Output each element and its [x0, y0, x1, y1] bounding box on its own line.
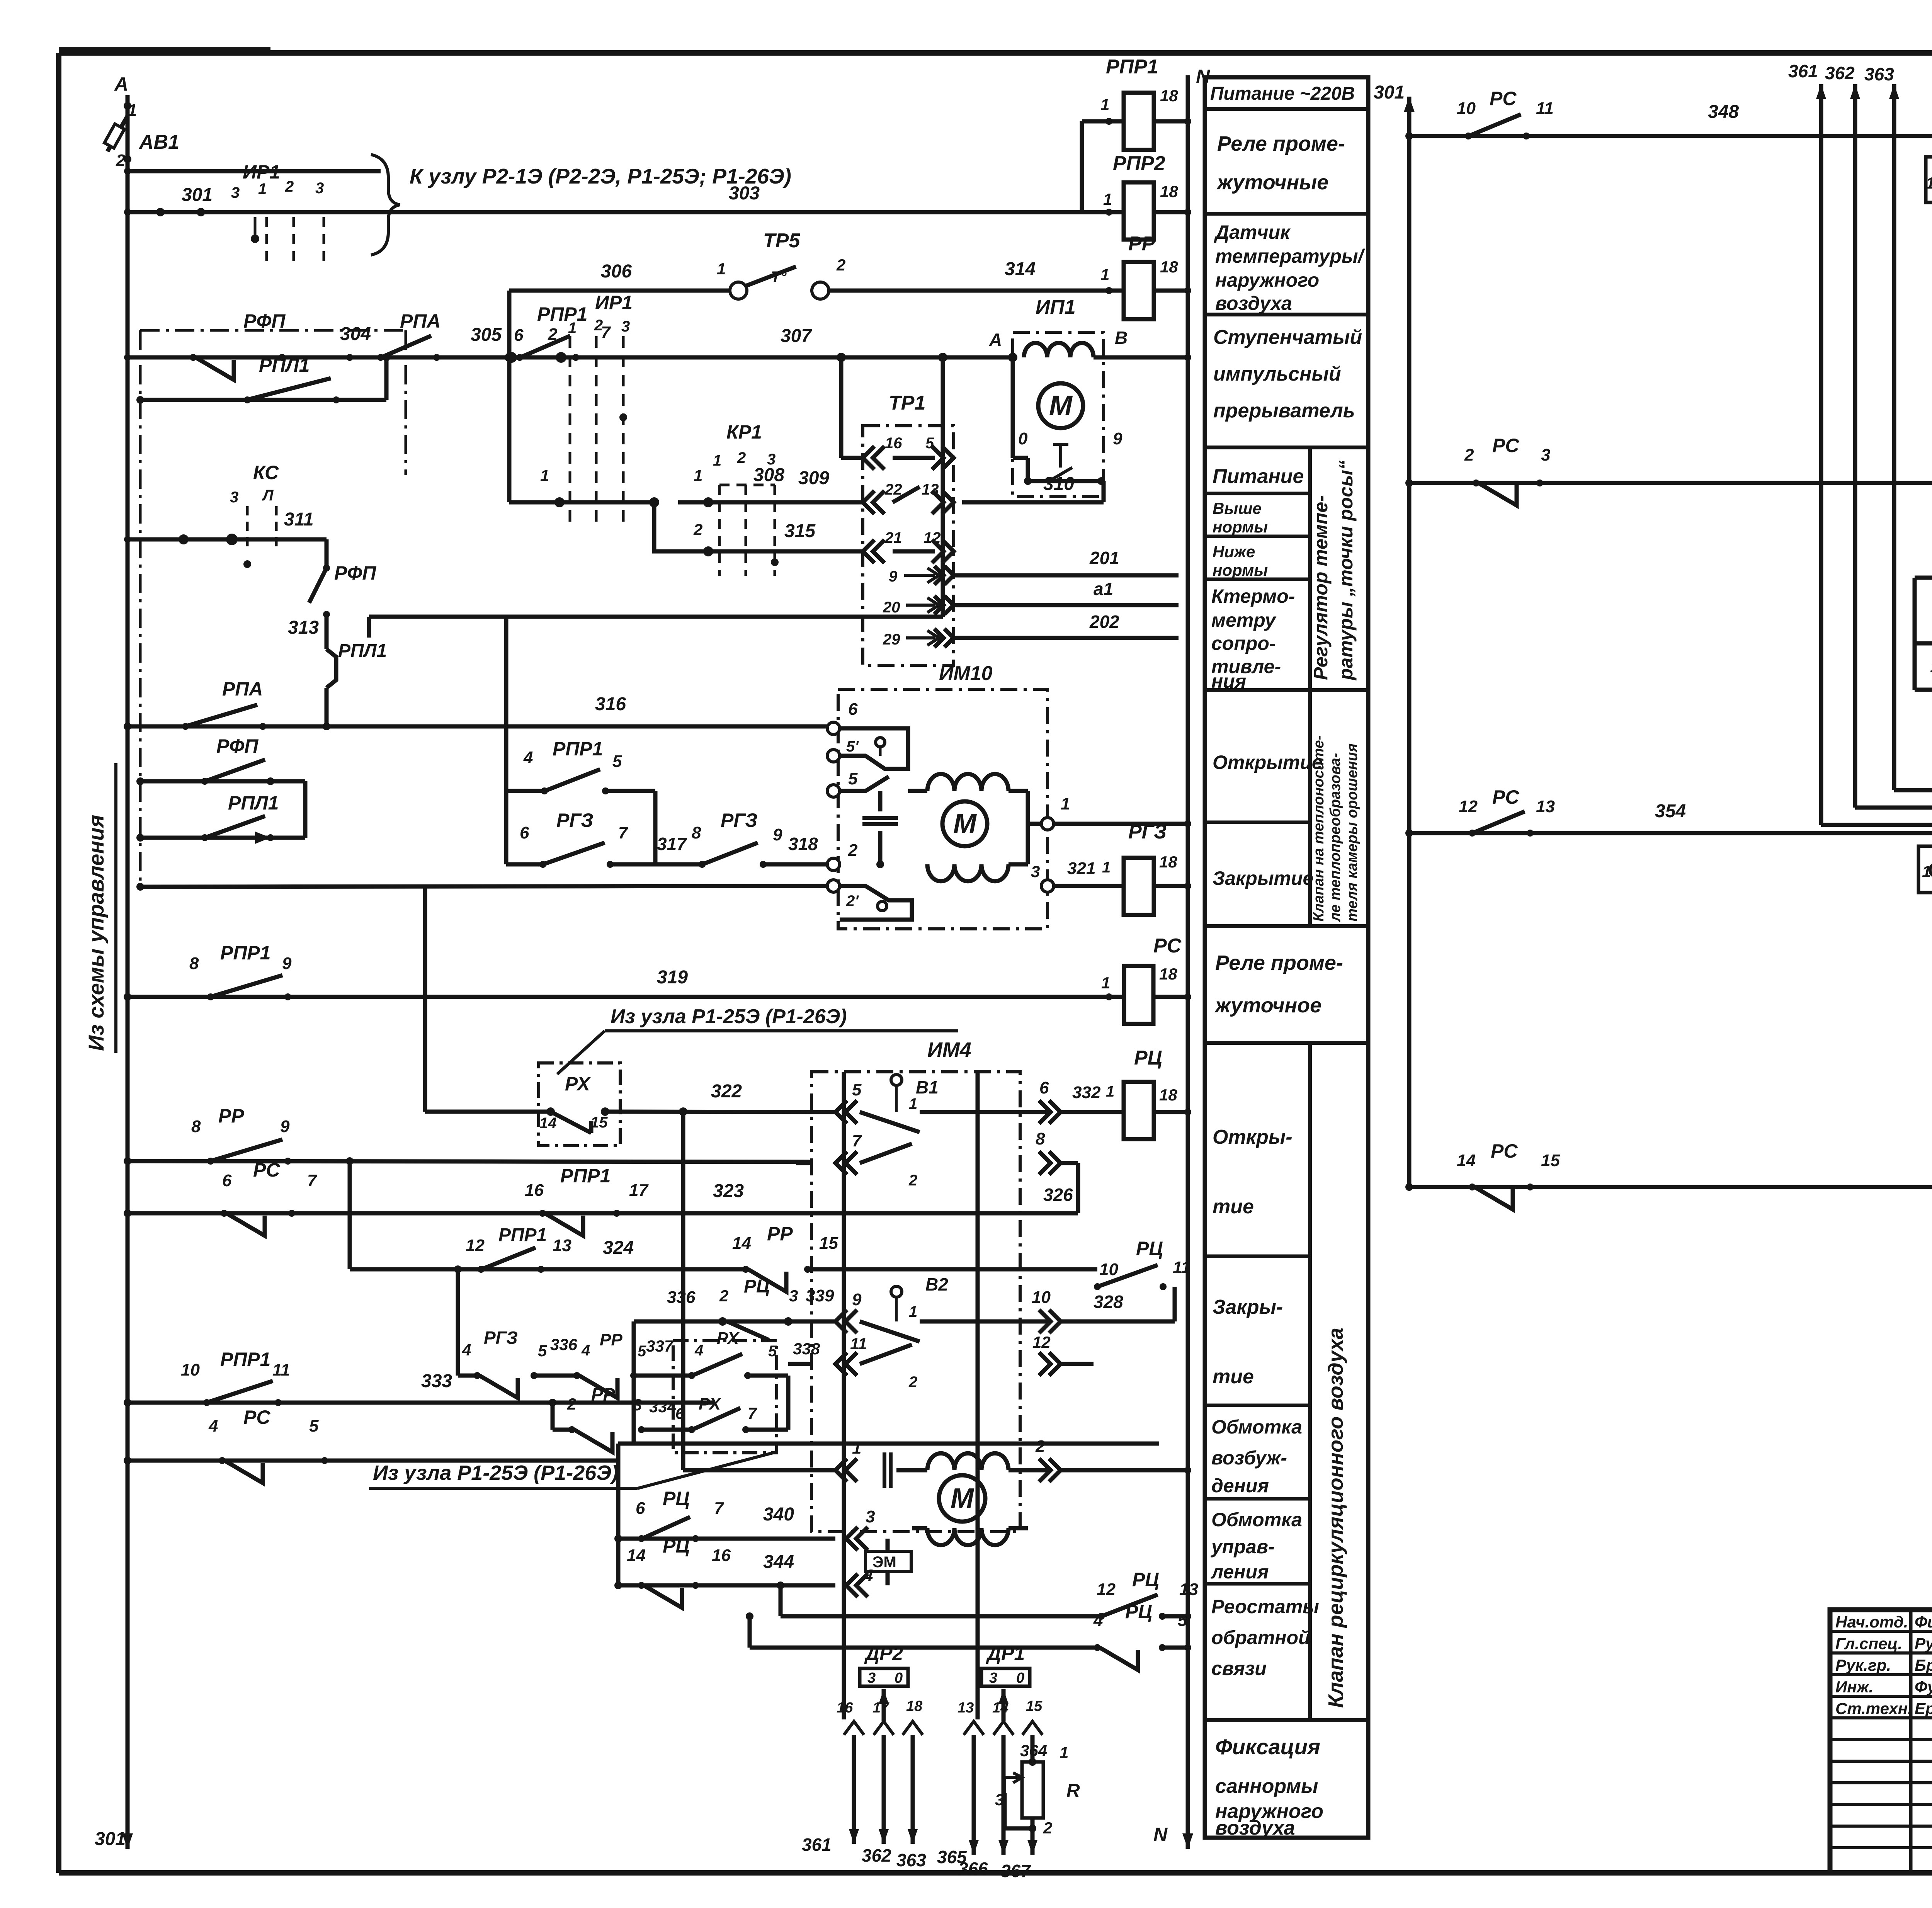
ДР2 terminal arrow 3 — [903, 1721, 923, 1735]
regulator cell divider y=1388 — [1205, 535, 1310, 538]
vertical 306-feed — [507, 291, 512, 357]
svg-text:5: 5 — [309, 1417, 319, 1435]
ИМ4 contact 11/12 row — [835, 1352, 857, 1376]
svg-text:2': 2' — [846, 893, 859, 910]
svg-text:7: 7 — [618, 823, 629, 842]
svg-text:14: 14 — [1930, 657, 1932, 676]
svg-text:362: 362 — [1825, 63, 1855, 83]
svg-text:3: 3 — [866, 1507, 875, 1526]
svg-text:3: 3 — [1541, 446, 1550, 464]
svg-text:4: 4 — [462, 1341, 471, 1359]
svg-text:202: 202 — [1089, 612, 1119, 632]
svg-text:303: 303 — [729, 183, 760, 204]
svg-text:РР: РР — [767, 1223, 793, 1245]
regulator cell divider y=1499 — [1205, 578, 1310, 581]
row 4 РС 5 (3780) — [128, 1459, 618, 1463]
svg-text:7: 7 — [852, 1131, 862, 1150]
svg-text:323: 323 — [713, 1181, 744, 1201]
svg-text:ДР1: ДР1 — [986, 1643, 1025, 1664]
svg-text:Фингер: Фингер — [1915, 1613, 1932, 1631]
contact РФП vertical chain — [325, 539, 329, 568]
svg-text:РГЗ: РГЗ — [721, 809, 758, 831]
svg-text:8: 8 — [189, 954, 199, 973]
svg-text:РПР1: РПР1 — [498, 1225, 547, 1245]
wire 311 row — [128, 537, 327, 542]
svg-text:обратной: обратной — [1211, 1627, 1310, 1648]
svg-text:337: 337 — [646, 1337, 674, 1355]
svg-text:РПЛ1: РПЛ1 — [338, 641, 387, 661]
svg-text:10: 10 — [181, 1360, 200, 1379]
svg-text:8: 8 — [191, 1117, 201, 1136]
svg-text:РПЛ1: РПЛ1 — [259, 354, 310, 376]
svg-text:РГЗ: РГЗ — [556, 809, 594, 831]
svg-text:6: 6 — [848, 700, 858, 719]
svg-text:Открытие: Открытие — [1213, 752, 1323, 773]
svg-text:Регулятор темпе-: Регулятор темпе- — [1310, 495, 1332, 680]
svg-text:Обмотка: Обмотка — [1211, 1509, 1302, 1530]
svg-text:16: 16 — [885, 435, 902, 452]
svg-text:а1: а1 — [1094, 579, 1113, 599]
svg-text:301: 301 — [95, 1829, 126, 1849]
ТР1 contact 22/13 — [863, 491, 884, 514]
svg-text:Л: Л — [262, 487, 274, 504]
svg-text:7: 7 — [307, 1171, 318, 1190]
svg-text:18: 18 — [1159, 853, 1177, 871]
svg-text:9: 9 — [889, 568, 898, 585]
signature table row line y=4390 — [1830, 1695, 1932, 1698]
row 315 — [678, 549, 863, 554]
svg-text:нормы: нормы — [1213, 561, 1268, 579]
vertical 1696 down — [653, 791, 658, 864]
svg-text:354: 354 — [1655, 801, 1686, 821]
ИМ6 motor row 1/2 — [1915, 576, 1932, 580]
ИМ4 contact 7/8 row — [835, 1151, 857, 1175]
svg-text:1: 1 — [1103, 190, 1112, 208]
svg-text:1: 1 — [909, 1095, 917, 1112]
РЦ 10-11 wire — [1097, 1269, 1098, 1287]
svg-text:ле теплопреобразова-: ле теплопреобразова- — [1327, 753, 1344, 922]
svg-text:12: 12 — [466, 1236, 485, 1255]
svg-text:21: 21 — [884, 529, 902, 546]
svg-text:РХ: РХ — [699, 1394, 722, 1413]
svg-text:ИП1: ИП1 — [1036, 296, 1076, 318]
signature table row line y=4614 — [1830, 1781, 1932, 1784]
svg-text:10: 10 — [1099, 1260, 1118, 1279]
svg-text:М: М — [951, 1483, 975, 1514]
svg-text:РЦ: РЦ — [1125, 1601, 1152, 1622]
svg-text:тие: тие — [1213, 1366, 1254, 1388]
middle column divider y=553 — [1205, 212, 1368, 216]
svg-text:6: 6 — [222, 1171, 232, 1190]
sheet frame top border — [59, 50, 1932, 56]
svg-text:1: 1 — [1106, 1083, 1114, 1100]
svg-text:РФП: РФП — [243, 310, 286, 332]
svg-text:РГЗ: РГЗ — [1128, 821, 1167, 843]
svg-text:РПР1: РПР1 — [1106, 56, 1158, 78]
svg-text:18: 18 — [1159, 1086, 1177, 1104]
svg-text:313: 313 — [288, 617, 319, 638]
svg-text:5: 5 — [538, 1342, 547, 1360]
ИМ10 switch blade 2прим — [878, 901, 887, 911]
svg-text:3: 3 — [231, 184, 240, 201]
svg-text:0: 0 — [1016, 1670, 1024, 1686]
svg-text:АВ1: АВ1 — [138, 131, 179, 153]
ИП1 motor — [1038, 383, 1083, 428]
ИП1 left drop to row 307 — [1011, 357, 1015, 458]
ИМ10 capacitor — [878, 791, 883, 811]
ИМ10 terminal 6 — [827, 722, 840, 735]
svg-text:14: 14 — [1457, 1151, 1476, 1170]
svg-text:2: 2 — [548, 325, 558, 344]
row 305/307 main — [128, 355, 1013, 360]
row РС 2-3 / РН 16-17 / 350 — [1409, 481, 1932, 485]
svg-text:4: 4 — [1093, 1611, 1103, 1630]
svg-text:304: 304 — [340, 324, 371, 344]
svg-text:Реле проме-: Реле проме- — [1215, 951, 1343, 974]
svg-text:ратуры „точки росы“: ратуры „точки росы“ — [1335, 460, 1357, 681]
svg-text:жуточные: жуточные — [1216, 171, 1328, 194]
svg-text:305: 305 — [471, 325, 502, 345]
svg-text:339: 339 — [806, 1286, 834, 1305]
svg-text:367: 367 — [1001, 1861, 1031, 1881]
svg-text:Датчик: Датчик — [1214, 221, 1291, 243]
svg-text:Из узла Р1-25Э (Р1-26Э): Из узла Р1-25Э (Р1-26Э) — [373, 1461, 618, 1485]
row 309 — [678, 500, 863, 505]
nested wires from 361/362/363 to БР2 — [1821, 823, 1932, 827]
row РПР1 8-9 / wire 319 — [128, 995, 1124, 999]
signature table row line y=4558 — [1830, 1760, 1932, 1763]
svg-text:РХ: РХ — [565, 1073, 591, 1095]
svg-text:Закры-: Закры- — [1213, 1296, 1283, 1318]
svg-text:1: 1 — [1102, 859, 1111, 876]
svg-text:201: 201 — [1089, 548, 1119, 568]
svg-text:связи: связи — [1211, 1658, 1267, 1679]
svg-text:Обмотка: Обмотка — [1211, 1416, 1302, 1438]
svg-text:РПР1: РПР1 — [537, 303, 587, 325]
svg-text:ДР2: ДР2 — [864, 1643, 903, 1664]
svg-text:364: 364 — [1020, 1741, 1047, 1760]
svg-text:ТР5: ТР5 — [763, 230, 800, 252]
svg-text:2: 2 — [719, 1287, 728, 1305]
svg-text:Рубчински: Рубчински — [1915, 1634, 1932, 1653]
svg-text:338: 338 — [793, 1340, 820, 1358]
svg-text:А: А — [989, 330, 1002, 350]
wire 326 drop — [1061, 1161, 1078, 1165]
contact РПЛ1 vertical chain — [325, 614, 329, 649]
svg-text:12: 12 — [1032, 1333, 1051, 1351]
ИМ10 terminal 5 — [827, 785, 840, 797]
vertical wires 361 362 363 with up arrows — [1819, 84, 1823, 825]
svg-text:Гл.спец.: Гл.спец. — [1835, 1634, 1902, 1653]
svg-text:311: 311 — [284, 509, 314, 530]
svg-text:РЦ: РЦ — [663, 1488, 690, 1509]
row 333 РПР1 10-11 — [128, 1401, 715, 1405]
dash-dot selector frame (left) — [139, 330, 142, 889]
svg-text:344: 344 — [763, 1552, 794, 1572]
svg-text:6: 6 — [520, 823, 529, 842]
svg-text:321: 321 — [1067, 859, 1095, 878]
svg-text:теля камеры орошения: теля камеры орошения — [1344, 743, 1361, 922]
signature table column dividers — [1909, 1610, 1913, 1873]
svg-text:14: 14 — [627, 1546, 646, 1565]
valve sub-block divider — [1308, 690, 1312, 926]
ИМ10 terminal 5прим — [827, 750, 840, 762]
svg-text:РХ: РХ — [717, 1329, 740, 1348]
ЭМ electromagnet box — [886, 1539, 890, 1551]
svg-text:14: 14 — [732, 1234, 751, 1253]
recirculation sub-block divider — [1308, 1043, 1312, 1720]
svg-text:15: 15 — [1541, 1151, 1560, 1170]
wire 303 — [128, 210, 1082, 214]
svg-text:Инж.: Инж. — [1835, 1678, 1873, 1696]
svg-text:309: 309 — [798, 468, 829, 488]
ИМ4 contact 5/6 row — [835, 1100, 857, 1124]
svg-text:Выше: Выше — [1213, 499, 1262, 517]
wire above motor (3736) — [618, 1442, 1159, 1446]
row РС 6-7 / 323 — [128, 1211, 1078, 1216]
regulator sub-block divider — [1308, 447, 1312, 690]
svg-text:R: R — [1066, 1780, 1080, 1801]
svg-text:РПР1: РПР1 — [553, 738, 603, 760]
svg-text:15: 15 — [1026, 1698, 1043, 1714]
svg-text:1: 1 — [568, 320, 577, 337]
svg-text:1: 1 — [713, 452, 721, 469]
switch В1 (ИМ4) — [891, 1075, 902, 1085]
contact box РХ (14-15) — [539, 1063, 620, 1146]
svg-text:301: 301 — [182, 185, 213, 205]
svg-text:362: 362 — [862, 1845, 891, 1865]
svg-text:РС: РС — [1490, 88, 1517, 109]
svg-text:тие: тие — [1213, 1195, 1254, 1218]
svg-text:В1: В1 — [916, 1077, 939, 1097]
terminal strip БР2 — [1918, 846, 1932, 893]
svg-text:18: 18 — [1160, 182, 1178, 201]
svg-text:РС: РС — [1153, 935, 1182, 957]
middle column divider y=814 — [1205, 313, 1368, 316]
signature table row line y=4670 — [1830, 1803, 1932, 1806]
svg-text:Питание ~220В: Питание ~220В — [1210, 83, 1355, 104]
svg-text:3: 3 — [789, 1287, 798, 1305]
middle column divider y=1158 — [1205, 446, 1368, 449]
row РГЗ 317 РГЗ 318 — [506, 862, 543, 867]
svg-text:361: 361 — [802, 1835, 832, 1855]
svg-text:РР: РР — [600, 1330, 622, 1349]
svg-text:РР: РР — [1128, 233, 1155, 255]
svg-text:0: 0 — [895, 1670, 903, 1686]
svg-text:363: 363 — [1864, 64, 1894, 84]
svg-text:6: 6 — [514, 326, 524, 345]
svg-text:29: 29 — [883, 631, 900, 648]
svg-text:10: 10 — [1032, 1288, 1051, 1307]
switch АВ1 — [124, 102, 131, 110]
svg-text:температуры/: температуры/ — [1215, 245, 1366, 267]
signature table row line y=4278 — [1830, 1651, 1932, 1655]
svg-text:16: 16 — [837, 1700, 853, 1716]
ИМ10 motor — [927, 774, 1009, 791]
svg-text:319: 319 — [657, 967, 688, 988]
svg-text:340: 340 — [763, 1504, 794, 1525]
row 308 — [507, 357, 512, 502]
ДР2 terminal arrow 2 — [874, 1721, 894, 1735]
row РЦ 12-13 (4183) — [781, 1614, 1101, 1619]
svg-text:3: 3 — [1031, 862, 1040, 881]
svg-text:363: 363 — [896, 1850, 926, 1870]
svg-text:5': 5' — [846, 738, 859, 755]
svg-text:3: 3 — [621, 318, 630, 335]
svg-text:20: 20 — [883, 599, 900, 616]
left feeder vertical 1600 — [616, 1444, 621, 1585]
svg-text:22: 22 — [884, 481, 902, 498]
svg-text:2: 2 — [908, 1374, 917, 1391]
svg-text:15: 15 — [819, 1234, 838, 1253]
svg-text:1: 1 — [1100, 95, 1109, 114]
ИМ4 contact 9/10 row — [835, 1310, 857, 1333]
svg-text:ТР1: ТР1 — [889, 392, 925, 414]
svg-text:361: 361 — [1788, 61, 1818, 81]
svg-text:2: 2 — [567, 1395, 576, 1413]
row РПА / wire 316 — [128, 724, 833, 729]
bus A (phase) vertical left — [126, 95, 130, 1849]
svg-text:1: 1 — [1101, 974, 1110, 992]
ДР1 terminal arrow 1 — [964, 1721, 984, 1735]
wire 314 — [829, 289, 1124, 293]
svg-text:4: 4 — [863, 1566, 873, 1585]
svg-text:РС: РС — [1492, 435, 1519, 456]
svg-text:Из узла Р1-25Э (Р1-26Э): Из узла Р1-25Э (Р1-26Э) — [611, 1005, 847, 1028]
svg-text:РС: РС — [1491, 1140, 1518, 1162]
svg-text:нормы: нормы — [1213, 518, 1268, 536]
wire 321 left part — [140, 886, 827, 887]
svg-text:18: 18 — [1160, 87, 1178, 105]
svg-text:ИМ4: ИМ4 — [927, 1038, 971, 1061]
svg-text:Клапан рециркуляционного возд: Клапан рециркуляционного воздуха — [1324, 1328, 1347, 1708]
recirculation cell divider y=4099 — [1205, 1582, 1310, 1586]
svg-text:2: 2 — [1043, 1819, 1052, 1837]
ИМ10 terminal 2 — [827, 858, 840, 871]
regulator cell divider y=1277 — [1205, 492, 1310, 495]
signature table row line y=4782 — [1830, 1846, 1932, 1849]
recirculation cell divider y=3637 — [1205, 1404, 1310, 1407]
svg-text:13: 13 — [553, 1236, 571, 1255]
svg-text:2: 2 — [737, 449, 746, 466]
svg-text:12: 12 — [1097, 1580, 1116, 1599]
wire arrows down 361 362 363 — [852, 1735, 856, 1844]
svg-text:326: 326 — [1043, 1185, 1073, 1205]
svg-text:РПА: РПА — [222, 678, 263, 700]
ДР2 terminal arrow 1 — [844, 1721, 864, 1735]
svg-text:7: 7 — [748, 1404, 757, 1422]
svg-text:5: 5 — [638, 1343, 646, 1360]
recirculation cell divider y=3879 — [1205, 1497, 1310, 1501]
ИМ4 rail left — [842, 1072, 846, 1719]
svg-text:1: 1 — [909, 1303, 917, 1320]
wire 308 — [506, 0, 507, 357]
svg-text:16: 16 — [712, 1546, 731, 1565]
signature table row line y=4446 — [1830, 1716, 1932, 1719]
wire arrows down 366 367 — [972, 1735, 976, 1855]
svg-text:РФП: РФП — [334, 562, 376, 584]
svg-text:10: 10 — [1457, 99, 1476, 118]
svg-text:ИМ10: ИМ10 — [939, 662, 993, 685]
svg-text:2: 2 — [594, 317, 603, 334]
svg-text:9: 9 — [852, 1290, 862, 1309]
signature table row line y=4502 — [1830, 1738, 1932, 1741]
svg-text:Реостаты: Реостаты — [1211, 1596, 1319, 1617]
svg-text:жуточное: жуточное — [1214, 994, 1321, 1017]
svg-text:КР1: КР1 — [726, 421, 762, 443]
svg-text:314: 314 — [1005, 259, 1036, 279]
resistor R with tap — [1031, 1735, 1035, 1762]
ДР1 terminal arrow 2 — [993, 1721, 1014, 1735]
svg-text:315: 315 — [784, 521, 816, 541]
row РС 10-11 / wire 348 — [1409, 134, 1932, 138]
ИМ10 terminal 3 / wire 321 — [1041, 880, 1054, 892]
svg-text:1: 1 — [1061, 794, 1070, 813]
svg-text:9: 9 — [280, 1117, 290, 1136]
ТР1 left feed vertical — [839, 357, 844, 458]
middle column divider y=282 — [1205, 107, 1368, 111]
svg-text:332: 332 — [1072, 1083, 1101, 1102]
svg-text:11: 11 — [1173, 1258, 1190, 1277]
contact РПЛ1 (row 1035) — [140, 398, 386, 402]
svg-text:Откры-: Откры- — [1213, 1126, 1293, 1148]
svg-text:324: 324 — [603, 1238, 634, 1258]
row РПР1 12-13 / 324 — [350, 1267, 746, 1272]
svg-text:Фукс: Фукс — [1915, 1678, 1932, 1696]
svg-text:322: 322 — [711, 1081, 742, 1102]
svg-text:11: 11 — [272, 1360, 290, 1379]
vertical from row307 to row308 — [509, 357, 510, 502]
svg-text:РР: РР — [591, 1384, 615, 1405]
svg-text:4: 4 — [208, 1417, 218, 1435]
В2 switch (ИМ4) — [891, 1286, 902, 1297]
БР2 terminal 1 — [1930, 864, 1932, 877]
contact box РХ 2 — [673, 1341, 777, 1453]
svg-text:301: 301 — [1374, 82, 1405, 103]
svg-text:1: 1 — [852, 1439, 861, 1457]
row РР 8-9 (3005) — [128, 1161, 796, 1161]
svg-text:4: 4 — [694, 1342, 703, 1359]
svg-text:импульсный: импульсный — [1213, 363, 1341, 385]
jog 308 to 315 — [654, 502, 678, 551]
РПР1 4-5 feed vertical — [504, 617, 509, 791]
svg-text:1: 1 — [1922, 862, 1931, 881]
svg-text:2: 2 — [693, 520, 702, 539]
svg-text:КС: КС — [253, 462, 279, 483]
svg-text:РФП: РФП — [216, 735, 259, 757]
svg-text:РПР1: РПР1 — [560, 1165, 611, 1187]
svg-text:РС: РС — [243, 1406, 270, 1428]
ИМ10 terminal 2прим — [827, 880, 840, 892]
svg-text:0: 0 — [1018, 429, 1028, 448]
svg-text:ЭМ: ЭМ — [872, 1554, 896, 1571]
row РС 12-13 / wire 354 — [1409, 831, 1932, 835]
terminal strip БР1 — [1926, 157, 1932, 202]
svg-text:ния: ния — [1211, 670, 1246, 692]
ИМ10 terminal 1 — [1041, 818, 1054, 830]
svg-text:6: 6 — [636, 1499, 645, 1518]
РПР1 feed vertical — [1080, 121, 1084, 212]
svg-text:РР: РР — [218, 1105, 244, 1127]
svg-text:8: 8 — [692, 823, 701, 842]
svg-text:РПР2: РПР2 — [1113, 152, 1165, 175]
svg-text:6: 6 — [1039, 1078, 1049, 1097]
svg-text:РЦ: РЦ — [1136, 1238, 1163, 1259]
svg-text:3: 3 — [315, 180, 324, 197]
svg-text:РПА: РПА — [400, 310, 440, 332]
svg-text:ИР1: ИР1 — [243, 161, 280, 183]
svg-text:306: 306 — [601, 261, 632, 282]
